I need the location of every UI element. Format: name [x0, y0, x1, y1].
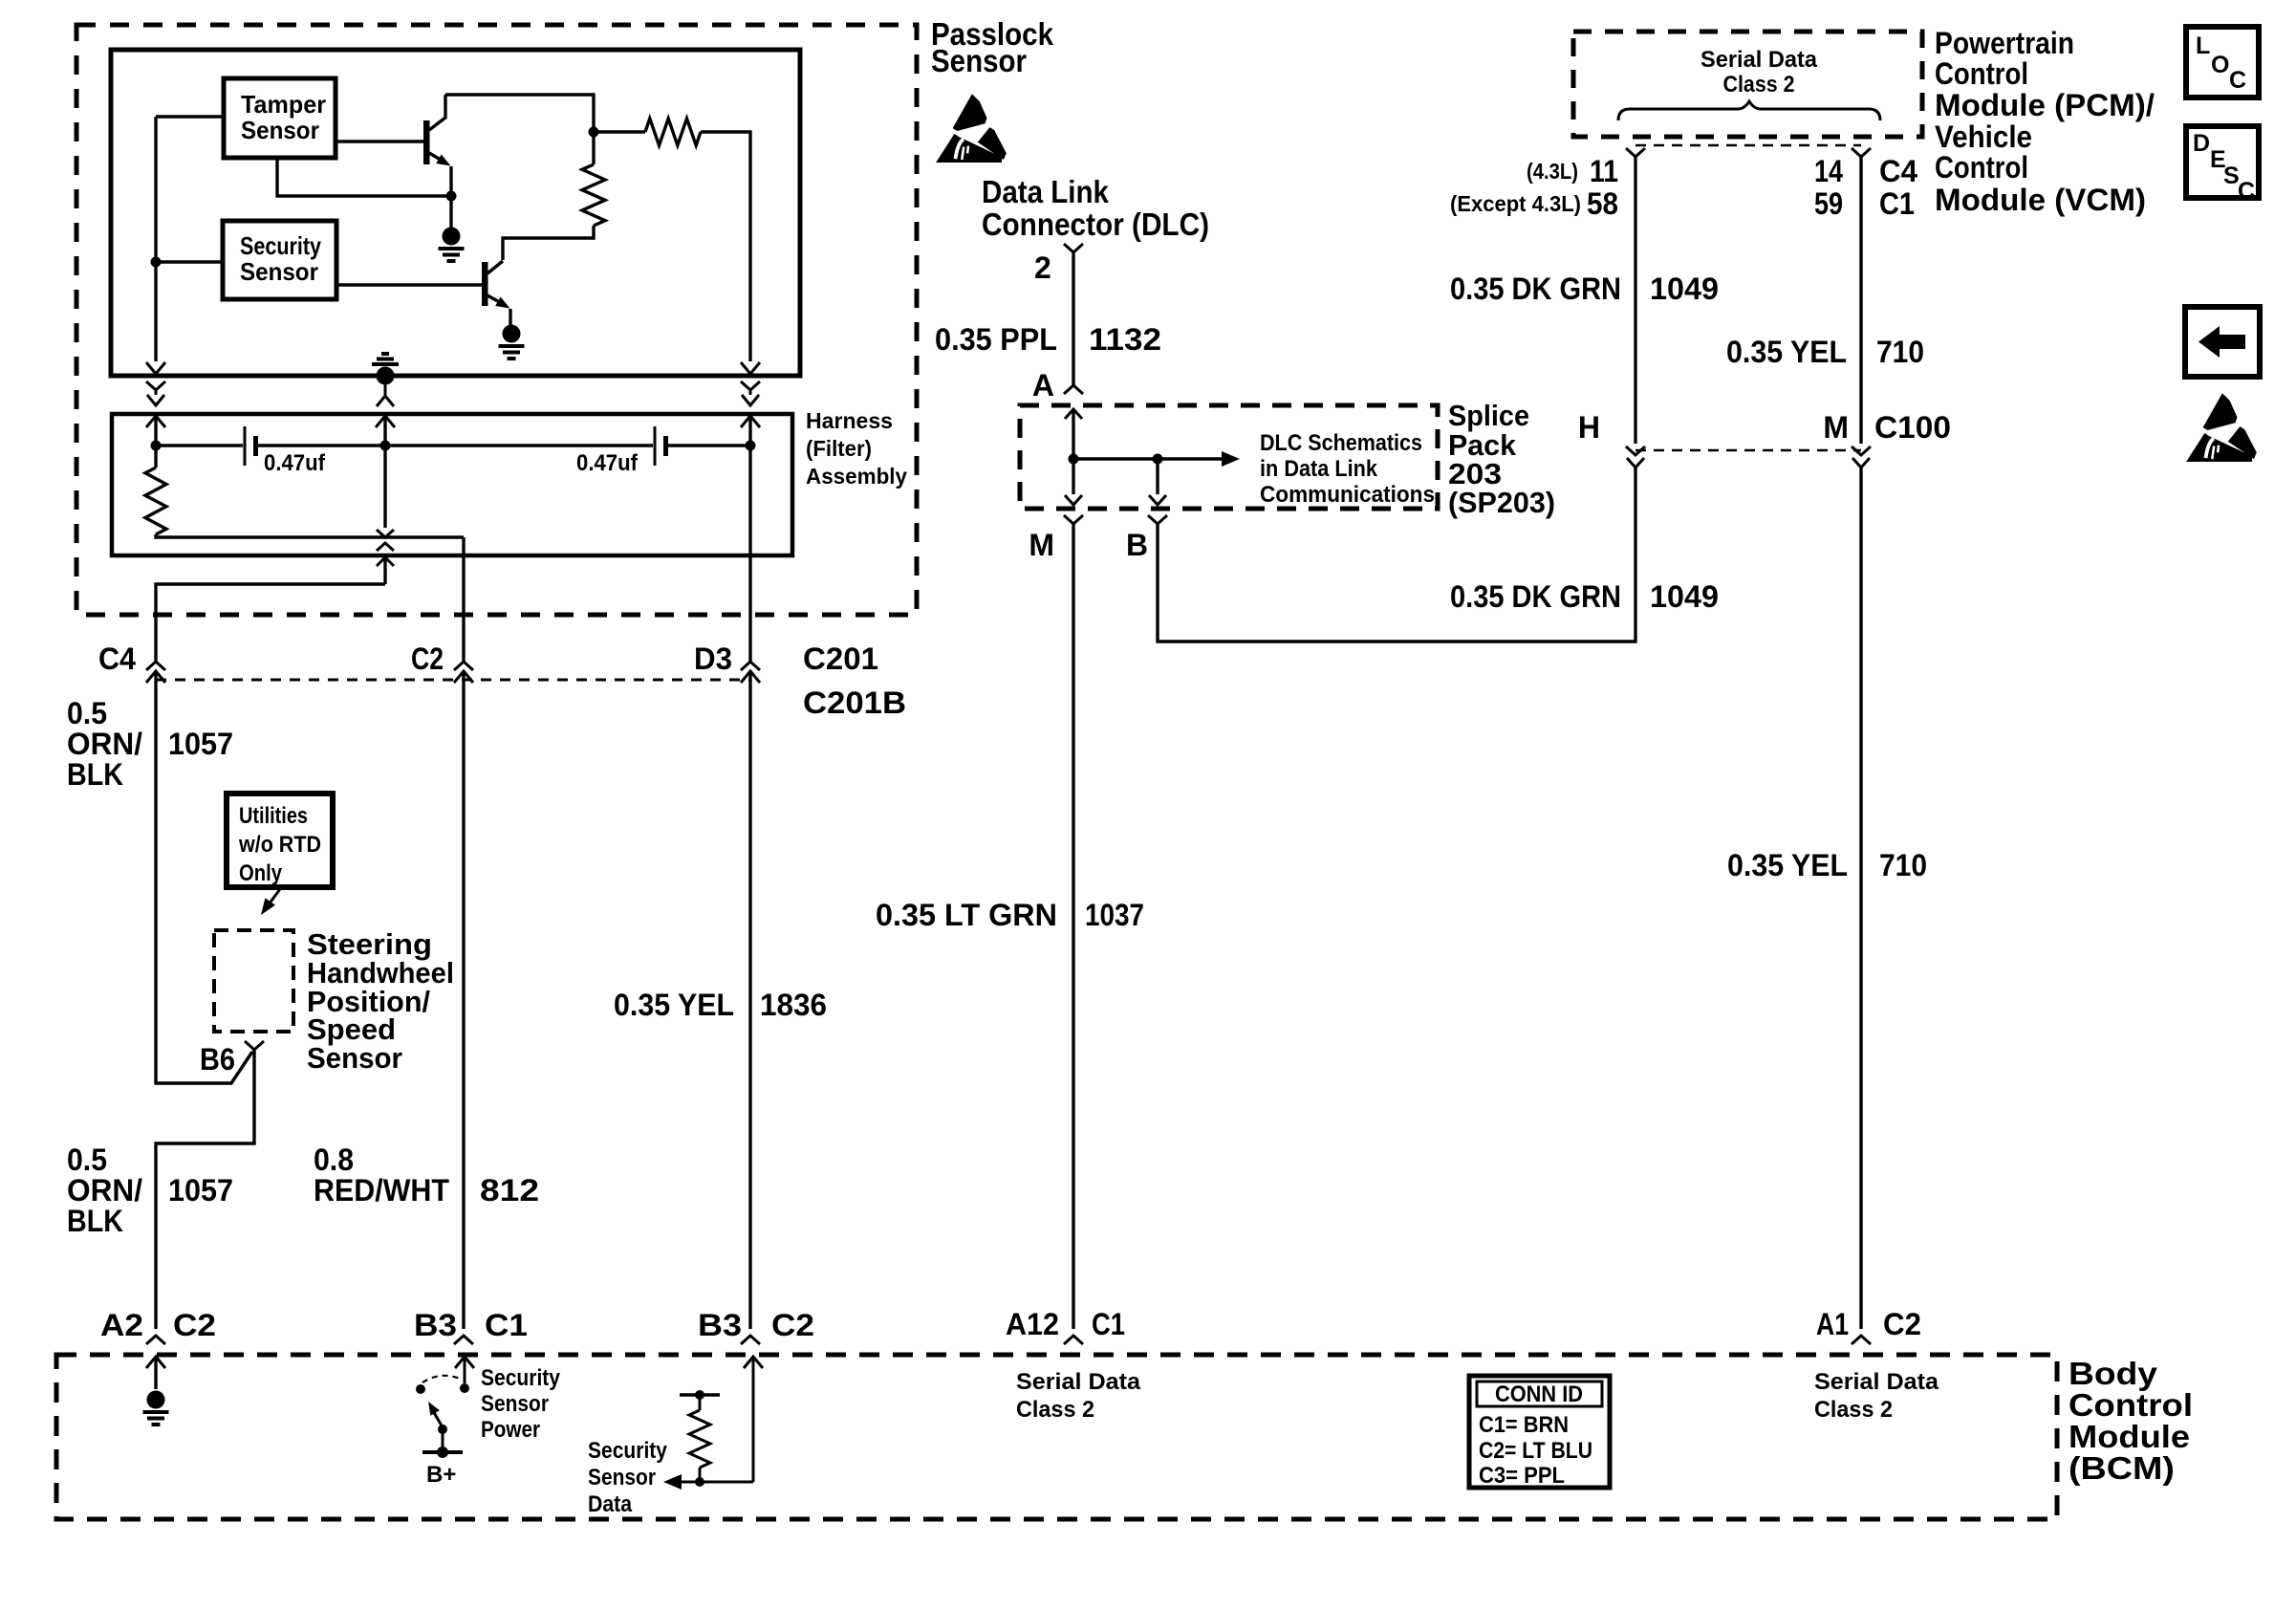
wire 0.5 ORN/BLK 1057 upper segment [156, 671, 252, 1083]
wire capacitor bus right [668, 444, 750, 446]
wire tamper sensor left lead [156, 115, 224, 118]
svg-text:Communications: Communications [1260, 482, 1435, 508]
svg-text:Sensor: Sensor [307, 1041, 402, 1075]
svg-text:(Except 4.3L): (Except 4.3L) [1450, 191, 1581, 216]
switch SW1 blade with arrow [432, 1409, 443, 1427]
wire 0.5 ORN/BLK 1057 lower segment [156, 1050, 254, 1329]
wire harness left to resistor R3 [154, 446, 157, 468]
node harness left [151, 441, 162, 451]
wire C4 elbow below harness [156, 584, 385, 662]
wire 0.35 PPL 1132 [1072, 252, 1074, 385]
svg-text:Sensor: Sensor [481, 1391, 549, 1417]
wire BCM sensor data horizontal [681, 1481, 753, 1484]
Steering sensor label [307, 927, 454, 1075]
connector chevrons sensor-to-harness (right) [741, 381, 760, 390]
wire 0.35 DK GRN 1049 lower (B to H) [1158, 468, 1635, 642]
svg-text:1057: 1057 [168, 727, 233, 761]
arrow into harness top (left) [146, 416, 165, 427]
svg-text:710: 710 [1879, 848, 1927, 882]
wire 0.35 YEL 710 lower (M column) [1859, 468, 1862, 1329]
svg-text:0.8: 0.8 [314, 1142, 354, 1177]
sensor assembly box U1 [111, 50, 800, 376]
svg-text:58: 58 [1587, 186, 1618, 221]
svg-text:C2= LT BLU: C2= LT BLU [1479, 1438, 1592, 1464]
capacitor C2 0.47uf [576, 426, 668, 476]
Tamper Sensor block [224, 78, 336, 158]
node harness right [746, 441, 756, 451]
svg-text:Module (PCM)/: Module (PCM)/ [1935, 88, 2155, 122]
svg-text:1132: 1132 [1089, 322, 1161, 357]
Harness Filter Assembly label [806, 408, 907, 489]
connector C201 dashed line [156, 679, 750, 682]
svg-text:A12: A12 [1006, 1307, 1059, 1341]
svg-text:(BCM): (BCM) [2069, 1450, 2175, 1486]
node harness mid [380, 441, 391, 451]
wire R2 to Q2 collector [503, 226, 594, 260]
LOC icon [2186, 27, 2259, 98]
CONN ID table [1469, 1376, 1610, 1489]
svg-text:(SP203): (SP203) [1448, 486, 1555, 519]
resistor R2 (vertical) [582, 164, 605, 226]
svg-text:0.47uf: 0.47uf [264, 450, 326, 476]
Data Link Connector DLC label [982, 174, 1209, 242]
Passlock Sensor module dashed box [76, 25, 917, 615]
svg-text:Splice: Splice [1448, 399, 1529, 432]
arrow into BCM (A2) [146, 1357, 165, 1368]
svg-text:D3: D3 [694, 642, 732, 676]
label 0.8 RED/WHT [314, 1142, 449, 1207]
svg-text:in Data Link: in Data Link [1260, 456, 1378, 482]
node A (divider junction) [589, 127, 599, 138]
svg-text:Harness: Harness [806, 408, 893, 433]
connector chevron B3 C1 [454, 1336, 473, 1344]
connector C201 (C2 wire) [454, 662, 473, 670]
arrow into BCM (B3 C1) [455, 1357, 474, 1368]
arrow into BCM (B3 C2) [744, 1357, 763, 1368]
connector chevron PCM pin 14/59 [1852, 148, 1871, 157]
svg-text:0.47uf: 0.47uf [576, 450, 639, 476]
Steering Handwheel Position Speed Sensor dashed box [214, 930, 293, 1032]
resistor R1 (horizontal) [645, 119, 701, 145]
svg-text:C2: C2 [173, 1308, 216, 1342]
wire D3 drop through harness [748, 447, 751, 662]
connector chevrons sensor-to-harness (left) [146, 381, 165, 390]
svg-text:Module: Module [2069, 1419, 2190, 1454]
svg-text:C3= PPL: C3= PPL [1479, 1463, 1565, 1489]
wire 0.8 RED/WHT 812 (C2 column) [462, 671, 465, 1329]
arrow from Utilities box to steering sensor [266, 889, 280, 908]
svg-text:Data Link: Data Link [982, 174, 1110, 209]
svg-text:ORN/: ORN/ [67, 1173, 142, 1207]
svg-text:(Filter): (Filter) [806, 436, 872, 461]
connector chevron splice A [1064, 385, 1083, 394]
svg-text:CONN ID: CONN ID [1495, 1382, 1583, 1407]
svg-text:Serial Data: Serial Data [1700, 47, 1818, 73]
Body Control Module label [2069, 1356, 2193, 1486]
arrow into harness top (mid) [376, 416, 395, 427]
svg-text:M: M [1823, 410, 1849, 445]
resistor R4 (BCM) [689, 1410, 710, 1468]
transistor Q1 emitter with arrow [429, 153, 444, 163]
svg-text:Power: Power [481, 1417, 540, 1443]
connector legs below ground G3 [384, 384, 387, 396]
transistor Q2 emitter with arrow [487, 295, 504, 305]
svg-text:A1: A1 [1816, 1307, 1849, 1341]
transistor Q1 collector [429, 95, 445, 130]
svg-text:Powertrain: Powertrain [1935, 26, 2074, 60]
svg-text:2: 2 [1034, 250, 1051, 285]
Splice Pack SP203 dashed box [1020, 405, 1438, 509]
svg-text:Data: Data [588, 1491, 633, 1517]
svg-text:DLC Schematics: DLC Schematics [1260, 430, 1422, 456]
svg-text:w/o RTD: w/o RTD [238, 832, 321, 858]
svg-text:0.35 YEL: 0.35 YEL [1726, 335, 1847, 369]
wire splice B drop [1156, 461, 1159, 494]
svg-text:812: 812 [480, 1173, 539, 1207]
wire 0.35 YEL 710 upper (M column) [1859, 157, 1862, 444]
wire 0.35 DK GRN 1049 upper (H column) [1634, 157, 1636, 444]
wire Q2 emitter drop [509, 309, 511, 325]
Powertrain Control Module PCM VCM label [1935, 26, 2155, 217]
connector chevron A12 [1064, 1336, 1083, 1344]
svg-text:Control: Control [1935, 56, 2028, 91]
svg-text:RED/WHT: RED/WHT [314, 1173, 449, 1207]
svg-text:C2: C2 [1883, 1307, 1921, 1341]
Powertrain Control Module dashed box [1573, 32, 1922, 137]
svg-text:Sensor: Sensor [931, 43, 1027, 78]
wire C2 drop through harness bottom [462, 537, 465, 662]
DLC Schematics note [1260, 430, 1435, 508]
svg-text:0.35 PPL: 0.35 PPL [935, 322, 1057, 357]
wire tamper sensor bottom lead [277, 158, 451, 196]
svg-text:11: 11 [1590, 154, 1618, 188]
wire Q2 base lead from security sensor [336, 283, 482, 286]
label Serial Data Class 2 (A12) [1016, 1369, 1141, 1423]
node splice branch B [1153, 454, 1163, 465]
DESC icon [2186, 126, 2259, 205]
ground G2 (Q2 emitter) [499, 325, 525, 359]
connector C201 (C4 wire) [146, 662, 165, 670]
svg-text:0.35 LT GRN: 0.35 LT GRN [876, 898, 1057, 932]
connector chevron B below splice [1148, 515, 1167, 524]
svg-text:Module (VCM): Module (VCM) [1935, 183, 2146, 217]
svg-text:C1: C1 [485, 1308, 528, 1342]
svg-text:B3: B3 [698, 1308, 742, 1342]
svg-text:BLK: BLK [67, 1204, 123, 1238]
wire node A to resistor R1 [597, 130, 645, 133]
Harness Filter Assembly box [112, 414, 792, 555]
svg-text:59: 59 [1814, 186, 1843, 221]
label 0.5 ORN/BLK (upper) [67, 696, 142, 792]
brace serial data class 2 [1618, 101, 1880, 120]
svg-text:1049: 1049 [1650, 272, 1719, 306]
svg-text:C2: C2 [411, 642, 444, 676]
svg-text:B: B [1126, 528, 1148, 562]
wire capacitor bus left [156, 444, 243, 446]
svg-text:0.35 YEL: 0.35 YEL [614, 988, 734, 1022]
arrow into sensor box bottom (left) [146, 362, 165, 374]
transistor Q2 collector [487, 261, 503, 273]
connector chevron DLC pin 2 [1064, 244, 1083, 252]
svg-text:1057: 1057 [168, 1173, 233, 1207]
switch SW1 pivot node [416, 1384, 425, 1394]
svg-text:B6: B6 [200, 1042, 235, 1077]
svg-text:1836: 1836 [760, 988, 827, 1022]
node Q1 emitter junction [446, 191, 457, 202]
wire Q1 base lead from tamper sensor [336, 140, 423, 142]
svg-text:C201B: C201B [803, 685, 906, 720]
transistor Q1 base bar [423, 120, 430, 164]
resistor R4 top bar [680, 1393, 720, 1396]
node security sensor tap [151, 257, 162, 268]
svg-text:C1: C1 [1879, 186, 1915, 221]
svg-text:C201: C201 [803, 642, 878, 676]
svg-text:0.35 DK GRN: 0.35 DK GRN [1450, 272, 1621, 306]
switch SW1 dashed link [422, 1376, 460, 1382]
wire capacitor bus mid-right [385, 444, 653, 446]
back arrow icon [2185, 307, 2260, 377]
svg-text:Sensor: Sensor [241, 116, 319, 144]
svg-text:Class 2: Class 2 [1016, 1397, 1094, 1423]
ground G3 (sensor box mid) [372, 354, 399, 385]
svg-text:710: 710 [1876, 335, 1924, 369]
connector chevron A1 [1852, 1336, 1871, 1344]
Passlock Sensor label [931, 16, 1054, 78]
connector C100 (M wire) [1852, 446, 1871, 455]
wire R3 to C2 drop [156, 534, 464, 537]
svg-text:C: C [2229, 67, 2246, 94]
wire switch to B+ [442, 1429, 444, 1452]
connector C100 dashed line [1635, 449, 1861, 452]
node R4 bottom [695, 1477, 704, 1487]
wire capacitor bus mid-left [258, 444, 385, 446]
svg-text:Sensor: Sensor [240, 257, 318, 286]
node splice SP203 main [1069, 454, 1079, 465]
wire splice M drop [1072, 461, 1074, 494]
svg-text:Class 2: Class 2 [1723, 72, 1795, 98]
svg-text:B+: B+ [426, 1462, 456, 1488]
svg-text:B3: B3 [414, 1308, 457, 1342]
svg-text:1049: 1049 [1650, 579, 1719, 614]
svg-text:Connector (DLC): Connector (DLC) [982, 207, 1209, 242]
svg-text:0.35 YEL: 0.35 YEL [1727, 848, 1848, 882]
svg-text:BLK: BLK [67, 757, 123, 792]
switch SW1 lower contact node [438, 1425, 447, 1434]
label Security Sensor Data [588, 1438, 668, 1517]
wire D3 drop inside sensor box [748, 145, 751, 361]
svg-text:Utilities: Utilities [239, 803, 308, 829]
arrow into harness top (right) [741, 416, 760, 427]
svg-text:Sensor: Sensor [588, 1465, 656, 1490]
arrow C4 wire into harness bottom [377, 557, 394, 566]
Body Control Module dashed box [56, 1355, 2057, 1519]
connector chevron B3 C2 [741, 1336, 760, 1344]
svg-text:C2: C2 [771, 1308, 814, 1342]
svg-text:Security: Security [240, 231, 321, 260]
connector chevron B6 [245, 1041, 264, 1050]
svg-text:A: A [1032, 368, 1054, 402]
connector chevron harness mid joint [377, 530, 394, 537]
svg-text:C4: C4 [98, 642, 136, 676]
svg-text:L: L [2196, 33, 2210, 59]
wire top rail Q1 collector to node A [445, 95, 594, 127]
svg-text:Serial Data: Serial Data [1016, 1369, 1141, 1395]
svg-text:C: C [2238, 178, 2255, 205]
wire splice horizontal [1073, 457, 1222, 460]
connector C100 (H wire) [1626, 446, 1645, 455]
svg-text:C100: C100 [1874, 410, 1951, 445]
svg-text:H: H [1578, 410, 1600, 445]
svg-text:0.5: 0.5 [67, 1142, 107, 1177]
resistor R3 (harness) [145, 468, 166, 534]
label 0.5 ORN/BLK (lower) [67, 1142, 142, 1238]
connector chevron PCM pin 11/58 [1626, 148, 1645, 157]
svg-text:(4.3L): (4.3L) [1527, 159, 1578, 184]
ESD symbol (passlock) [936, 94, 1007, 163]
wire 0.35 LT GRN 1037 (M column) [1072, 524, 1074, 1329]
switch SW1 fixed contact node [460, 1383, 469, 1393]
svg-text:0.35 DK GRN: 0.35 DK GRN [1450, 579, 1621, 614]
svg-text:Assembly: Assembly [806, 464, 907, 489]
arrow out splice bottom (B) [1149, 495, 1166, 505]
wire security sensor left lead [156, 260, 223, 263]
wire internal left bus [154, 117, 157, 361]
svg-text:Security: Security [481, 1365, 561, 1391]
arrow Security Sensor Data [663, 1474, 682, 1490]
wire R1 to D3 drop corner [701, 132, 750, 145]
connector chevron M below splice [1064, 515, 1083, 524]
arrow into sensor box bottom (right) [741, 362, 760, 374]
ground G4 (BCM A2) [143, 1391, 169, 1425]
wire 0.35 YEL 1836 (D3 column) [748, 671, 751, 1329]
wire Q1 emitter drop [449, 166, 452, 228]
svg-text:1037: 1037 [1085, 898, 1144, 932]
svg-text:D: D [2193, 130, 2210, 157]
Serial Data Class 2 label (PCM) [1700, 47, 1818, 98]
svg-text:A2: A2 [100, 1308, 143, 1342]
svg-text:14: 14 [1814, 154, 1843, 188]
svg-text:C1= BRN: C1= BRN [1479, 1412, 1569, 1438]
wire node A to resistor R2 [592, 137, 595, 164]
svg-text:C4: C4 [1879, 154, 1917, 188]
B+ supply symbol [422, 1450, 463, 1454]
wire R4 top lead [699, 1395, 702, 1410]
connector dashed line below PCM [1635, 144, 1861, 147]
capacitor C1 0.47uf [245, 426, 326, 476]
wire R4 bottom lead [699, 1468, 702, 1482]
svg-text:Body: Body [2069, 1356, 2158, 1391]
svg-text:Class 2: Class 2 [1814, 1397, 1893, 1423]
label Serial Data Class 2 (A1) [1814, 1369, 1939, 1423]
connector C201 (D3 wire) [741, 662, 760, 670]
svg-text:Only: Only [239, 860, 283, 886]
svg-text:Serial Data: Serial Data [1814, 1369, 1939, 1395]
arrow into splice top [1065, 409, 1082, 419]
svg-text:Vehicle: Vehicle [1935, 120, 2032, 154]
svg-text:Control: Control [1935, 150, 2028, 185]
label Security Sensor Power [481, 1365, 561, 1443]
svg-text:M: M [1029, 528, 1054, 562]
ESD symbol (right margin) [2186, 393, 2257, 462]
svg-text:Tamper: Tamper [241, 90, 326, 119]
Security Sensor block [223, 221, 336, 299]
svg-text:O: O [2211, 52, 2229, 78]
connector chevron A2 [146, 1336, 165, 1344]
ground G1 (Q1 emitter) [439, 228, 465, 262]
svg-text:C1: C1 [1092, 1307, 1125, 1341]
Splice Pack label [1448, 399, 1555, 519]
arrow out splice bottom (M) [1065, 495, 1082, 505]
svg-text:Control: Control [2069, 1387, 2193, 1423]
wire harness mid drop [383, 447, 386, 528]
svg-text:Security: Security [588, 1438, 668, 1464]
svg-text:ORN/: ORN/ [67, 727, 142, 761]
transistor Q2 base bar [482, 262, 488, 306]
Utilities w/o RTD Only box [227, 794, 333, 887]
svg-text:0.5: 0.5 [67, 696, 107, 730]
arrow to DLC schematics note [1222, 451, 1240, 467]
